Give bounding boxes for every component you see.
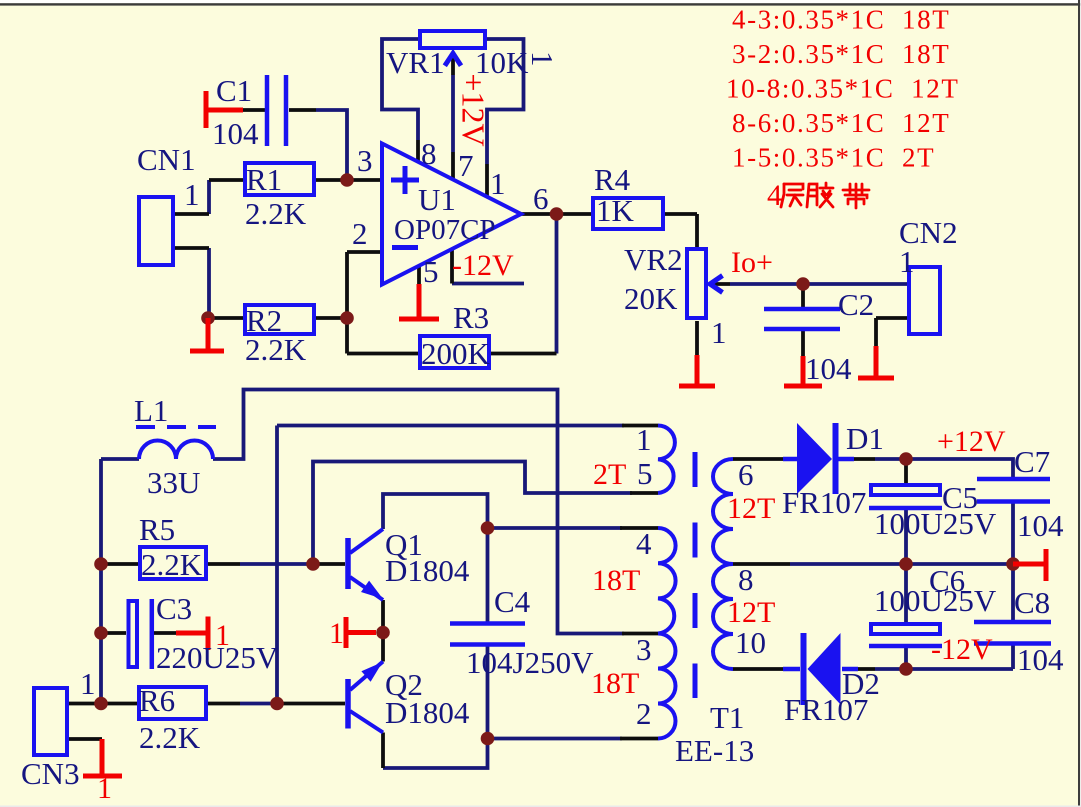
svg-text:1: 1: [329, 617, 344, 650]
svg-text:L1: L1: [134, 393, 168, 428]
svg-text:C3: C3: [156, 591, 192, 626]
svg-text:1: 1: [490, 166, 506, 201]
svg-text:R6: R6: [139, 683, 175, 718]
svg-text:1: 1: [636, 422, 652, 457]
svg-text:2.2K: 2.2K: [245, 196, 307, 231]
svg-text:D1: D1: [846, 421, 884, 456]
svg-text:2: 2: [352, 216, 368, 251]
svg-text:VR1: VR1: [386, 45, 445, 80]
svg-text:12T: 12T: [727, 596, 775, 629]
svg-text:12T: 12T: [727, 492, 775, 525]
svg-text:D1804: D1804: [385, 695, 470, 730]
svg-text:2T: 2T: [593, 458, 626, 491]
svg-text:2: 2: [636, 696, 652, 731]
svg-text:1: 1: [525, 51, 560, 67]
svg-text:4: 4: [636, 526, 652, 561]
svg-text:104J250V: 104J250V: [466, 645, 594, 680]
svg-text:R1: R1: [246, 162, 282, 197]
svg-text:2.2K: 2.2K: [245, 332, 307, 367]
svg-text:104: 104: [805, 351, 852, 386]
svg-text:R4: R4: [594, 162, 631, 197]
svg-text:8-6:0.35*1C 12T: 8-6:0.35*1C 12T: [732, 108, 950, 138]
svg-text:3: 3: [636, 632, 652, 667]
svg-text:2.2K: 2.2K: [139, 720, 201, 755]
svg-text:33U: 33U: [147, 465, 200, 500]
svg-text:Io+: Io+: [731, 246, 773, 279]
svg-text:+12V: +12V: [456, 73, 492, 146]
svg-text:8: 8: [421, 136, 437, 171]
svg-text:5: 5: [637, 456, 653, 491]
svg-text:6: 6: [533, 181, 549, 216]
svg-text:T1: T1: [710, 700, 744, 735]
svg-text:C4: C4: [494, 584, 531, 619]
svg-text:1: 1: [80, 666, 96, 701]
svg-text:3-2:0.35*1C 18T: 3-2:0.35*1C 18T: [732, 39, 950, 69]
svg-text:5: 5: [423, 254, 439, 289]
svg-text:3: 3: [357, 143, 373, 178]
svg-text:-12V: -12V: [452, 249, 514, 282]
svg-text:1: 1: [97, 772, 112, 805]
svg-text:4-3:0.35*1C 18T: 4-3:0.35*1C 18T: [732, 5, 950, 35]
svg-text:1-5:0.35*1C 2T: 1-5:0.35*1C 2T: [732, 143, 935, 173]
svg-text:1: 1: [215, 619, 230, 652]
svg-text:C8: C8: [1014, 585, 1050, 620]
svg-text:EE-13: EE-13: [675, 733, 754, 768]
svg-text:+12V: +12V: [937, 425, 1006, 458]
svg-text:200K: 200K: [421, 336, 491, 371]
svg-text:2.2K: 2.2K: [141, 547, 203, 582]
svg-text:U1: U1: [418, 182, 456, 217]
svg-text:1: 1: [899, 244, 915, 279]
svg-text:1: 1: [711, 315, 727, 350]
svg-text:18T: 18T: [592, 564, 640, 597]
svg-text:-12V: -12V: [931, 633, 993, 666]
svg-text:18T: 18T: [591, 667, 639, 700]
svg-text:FR107: FR107: [782, 485, 866, 520]
svg-text:10: 10: [735, 625, 766, 660]
svg-text:R3: R3: [453, 300, 489, 335]
svg-text:20K: 20K: [624, 281, 678, 316]
svg-text:VR2: VR2: [624, 242, 683, 277]
svg-text:D1804: D1804: [385, 553, 470, 588]
svg-text:1K: 1K: [596, 193, 635, 228]
svg-text:104: 104: [1017, 642, 1064, 677]
svg-text:7: 7: [458, 148, 474, 183]
svg-text:C2: C2: [838, 287, 874, 322]
svg-text:6: 6: [738, 457, 754, 492]
svg-text:10-8:0.35*1C 12T: 10-8:0.35*1C 12T: [726, 74, 959, 104]
svg-text:CN1: CN1: [137, 142, 196, 177]
svg-text:CN3: CN3: [21, 756, 80, 791]
svg-text:104: 104: [1017, 508, 1064, 543]
svg-text:100U25V: 100U25V: [874, 583, 997, 618]
svg-text:C1: C1: [216, 73, 252, 108]
svg-text:OP07CP: OP07CP: [394, 214, 496, 246]
svg-text:FR107: FR107: [784, 692, 868, 727]
svg-text:104: 104: [212, 116, 259, 151]
svg-text:R5: R5: [139, 512, 175, 547]
svg-text:C7: C7: [1014, 444, 1050, 479]
svg-text:8: 8: [738, 562, 754, 597]
svg-text:100U25V: 100U25V: [874, 506, 997, 541]
svg-text:1: 1: [184, 177, 200, 212]
